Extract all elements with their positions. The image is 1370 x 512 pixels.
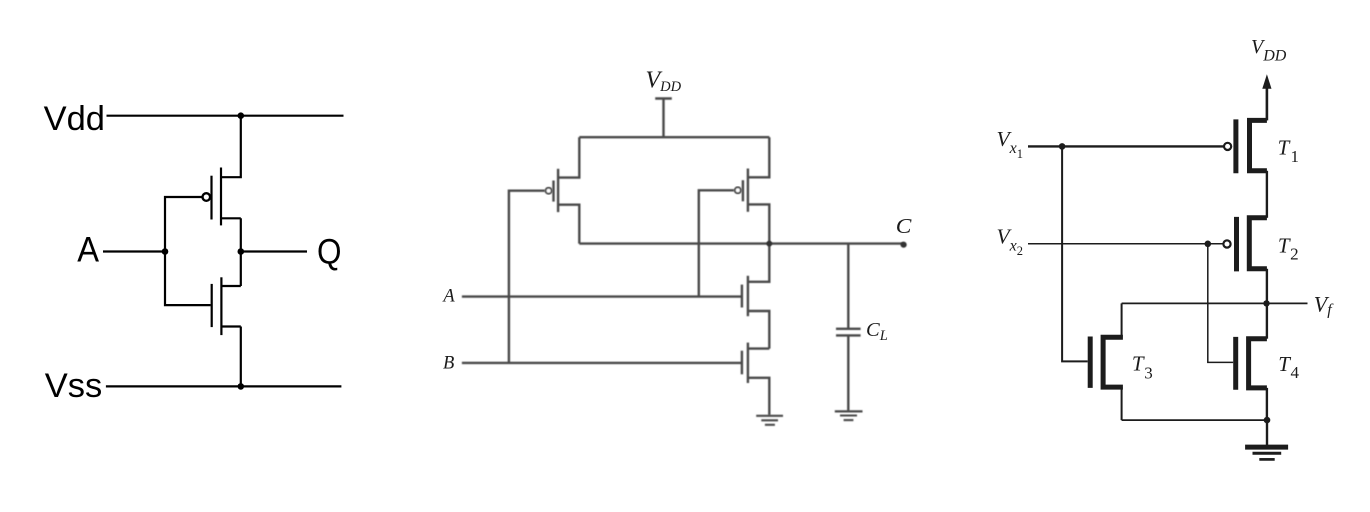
wire T2 source to Vf [1266, 269, 1268, 304]
transistor T2 gate bar [1234, 217, 1239, 272]
node output junction [766, 241, 772, 247]
svg-text:Vdd: Vdd [44, 100, 105, 138]
wire Vf line [1122, 302, 1308, 304]
pmos P2 gate bubble [735, 187, 741, 193]
svg-text:T3: T3 [1132, 352, 1153, 383]
pmos M1 channel bar [220, 168, 222, 226]
nmos N1 source wire [748, 311, 769, 349]
pmos P2 channel bar [747, 169, 749, 212]
nmos M2 drain line [221, 285, 240, 287]
transistor T2 channel bracket [1249, 218, 1267, 269]
node A junction [162, 248, 169, 255]
wire CL branch [847, 244, 849, 328]
nmos N2 drain wire [748, 347, 769, 349]
ground under CL [835, 410, 863, 412]
wire P1 gate to B [509, 191, 545, 363]
node Vf junction [1263, 300, 1269, 306]
nmos N2 channel bar [747, 343, 749, 383]
pmos M1 source line [221, 217, 241, 219]
wire B input [462, 362, 742, 364]
wire T3 drain [1121, 303, 1123, 337]
svg-text:A: A [441, 287, 455, 307]
pmos P2 drain wire [748, 137, 769, 177]
nmos N1 channel bar [747, 276, 749, 316]
transistor T4 gate bar [1233, 337, 1238, 390]
transistor T3 channel bracket [1103, 337, 1123, 387]
nmos N1 gate bar [741, 285, 743, 308]
wire Vx1 input [1028, 145, 1224, 147]
pmos P1 gate bubble [546, 188, 552, 194]
svg-text:Q: Q [317, 232, 342, 271]
ground under N2 [756, 415, 783, 417]
wire CL to ground [847, 335, 849, 410]
wire T1 source to T2 drain [1266, 171, 1268, 218]
transistor T1 gate bar [1233, 119, 1238, 173]
svg-text:CL: CL [866, 319, 888, 344]
node Q junction [238, 248, 245, 255]
wire top rail [579, 136, 769, 138]
transistor T2 gate bubble [1223, 240, 1230, 247]
wire A input [103, 250, 165, 252]
nmos N1 drain wire [748, 244, 769, 282]
wire bottom rail [1122, 419, 1267, 421]
node Vx1 junction [1059, 143, 1066, 150]
svg-text:Vf: Vf [1314, 291, 1334, 318]
svg-text:T4: T4 [1278, 352, 1299, 382]
Vss rail [106, 385, 342, 387]
nmos M2 gate bar [211, 284, 213, 327]
pmos P1 drain wire [558, 137, 579, 177]
node Vdd junction [238, 112, 245, 119]
transistor T1 channel bracket [1250, 120, 1267, 170]
wire Vx2 to T4 gate [1208, 244, 1233, 363]
svg-text:VDD: VDD [646, 68, 682, 96]
wire Q output [241, 250, 307, 252]
ground (right) [1245, 445, 1288, 450]
node C terminal [901, 242, 907, 248]
wire Vdd to PMOS drain [221, 116, 241, 178]
capacitor CL plates [836, 328, 861, 330]
pmos M1 gate bubble [203, 193, 211, 201]
svg-text:T2: T2 [1278, 234, 1299, 264]
pmos P2 source wire [748, 204, 769, 243]
pmos M1 gate bar [210, 176, 212, 220]
wire VDD stem [662, 99, 664, 138]
pmos P1 gate bar [552, 181, 554, 202]
node ground junction [1264, 417, 1271, 424]
wire Vx2 input [1028, 243, 1223, 245]
nmos N2 gate bar [741, 351, 743, 375]
svg-text:Vx2: Vx2 [997, 224, 1024, 258]
wire output spine [240, 218, 242, 286]
VDD arrow head [1262, 74, 1271, 89]
wire A input [462, 295, 742, 297]
svg-text:Vss: Vss [45, 367, 103, 405]
wire output line [579, 242, 903, 244]
wire to ground [1266, 420, 1268, 445]
transistor T4 channel bracket [1249, 339, 1267, 388]
wire gate net [165, 197, 211, 305]
wire T4 drain [1266, 303, 1268, 338]
pmos P2 gate bar [742, 180, 744, 201]
wire T4 source [1266, 388, 1268, 420]
svg-text:Vx1: Vx1 [997, 127, 1024, 161]
VDD supply bar [655, 97, 672, 100]
pmos P1 channel bar [557, 169, 559, 212]
wire Vx1 to T3 gate [1062, 146, 1088, 361]
svg-text:VDD: VDD [1251, 36, 1287, 64]
svg-text:C: C [896, 214, 912, 238]
wire P2 gate to A [699, 190, 734, 296]
nmos M2 channel bar [220, 277, 222, 335]
wire to Vss [240, 327, 242, 387]
nmos M2 source line [221, 325, 240, 327]
transistor T1 gate bubble [1224, 143, 1231, 150]
svg-text:T1: T1 [1278, 135, 1299, 165]
svg-text:A: A [77, 231, 99, 270]
nmos N2 source wire [748, 378, 769, 415]
wire VDD arrow stem [1266, 86, 1269, 120]
node Vx2 junction [1205, 241, 1212, 248]
wire T3 source [1121, 387, 1123, 420]
node Vss junction [238, 383, 245, 390]
transistor T3 gate bar [1088, 337, 1093, 388]
Vdd rail [107, 115, 344, 117]
pmos P1 source wire [558, 205, 579, 244]
svg-text:B: B [443, 353, 454, 373]
